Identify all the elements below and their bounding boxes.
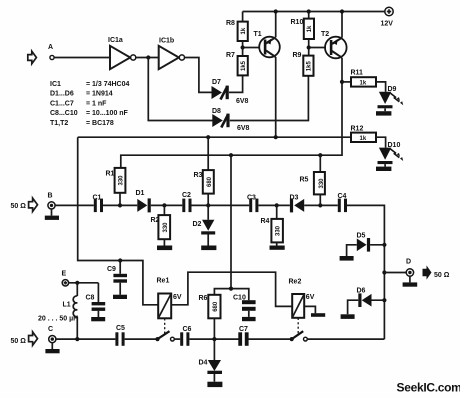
wire A to IC1a: [54, 57, 110, 59]
svg-text:C8: C8: [86, 294, 95, 301]
dashed link Re1: [164, 318, 166, 335]
svg-text:= 10...100 nF: = 10...100 nF: [86, 110, 129, 117]
svg-text:D1: D1: [136, 190, 145, 197]
svg-text:T2: T2: [321, 31, 329, 38]
wire R10 stems: [309, 12, 326, 56]
capacitor C8: [86, 283, 106, 317]
svg-text:R3: R3: [194, 172, 203, 179]
wire C3 to D3: [258, 204, 290, 206]
ground under D10: [376, 167, 391, 171]
node R2 row: [162, 203, 166, 207]
svg-text:Re1: Re1: [157, 277, 170, 284]
svg-text:C2: C2: [182, 192, 191, 199]
R6 value: [213, 301, 219, 312]
capacitor C7: [238, 326, 248, 346]
node junction IC1a-out: [146, 55, 150, 59]
resistor R6 680: [199, 295, 221, 339]
ground under R4: [270, 246, 285, 250]
dashed link Re2: [297, 318, 299, 336]
relay contact switch 2: [290, 331, 308, 341]
node D6 column: [382, 298, 386, 302]
R3 value: [207, 176, 213, 187]
transistor Q2 T2 BC178: [321, 31, 347, 58]
svg-text:R1: R1: [106, 171, 115, 178]
node rail T1: [274, 9, 278, 13]
diode D8 zener 6V8: [212, 108, 250, 132]
resistor R12 1k: [351, 126, 377, 142]
node E label: [62, 270, 67, 277]
relay Re1 coil: [157, 277, 182, 318]
svg-text:1k: 1k: [360, 136, 367, 142]
wire R1 bottom: [119, 193, 121, 206]
svg-text:A: A: [48, 44, 53, 51]
wire T1 collector down to bus: [275, 57, 277, 137]
wire switch1 to C6: [174, 338, 180, 340]
node L1 bottom: [75, 337, 79, 341]
resistor R9 1k5: [293, 52, 314, 76]
capacitor C1: [93, 195, 104, 213]
svg-text:D4: D4: [199, 360, 208, 367]
op-amp U1 IC1a: [108, 37, 136, 69]
svg-text:C6: C6: [183, 326, 192, 333]
svg-text:E: E: [62, 270, 67, 277]
diode D3: [290, 195, 305, 213]
diode D6: [348, 288, 385, 315]
wire R12 to D10: [376, 137, 386, 147]
svg-text:IC1a: IC1a: [108, 37, 123, 44]
ground under D5: [340, 256, 354, 261]
wire junction down to D8: [148, 58, 212, 121]
wire D7 cathode to R7: [229, 75, 243, 92]
input arrow C: [29, 332, 38, 345]
svg-text:1k: 1k: [360, 81, 367, 87]
R5 value: [319, 178, 325, 189]
svg-text:1k: 1k: [241, 27, 247, 34]
svg-text:6V8: 6V8: [236, 98, 249, 105]
svg-text:= 1/3 74HC04: = 1/3 74HC04: [86, 81, 129, 88]
node rail R10: [307, 9, 311, 13]
svg-text:R6: R6: [199, 295, 208, 302]
svg-text:50 Ω: 50 Ω: [434, 272, 450, 279]
svg-text:C: C: [48, 326, 53, 333]
ground under D4: [207, 382, 222, 387]
svg-text:C1...C7: C1...C7: [50, 100, 74, 107]
capacitor C3: [247, 195, 258, 212]
svg-text:D7: D7: [212, 79, 221, 86]
resistor R8 1k: [226, 20, 248, 41]
capacitor C6: [180, 326, 191, 346]
terminal E: [62, 280, 68, 286]
op-amp U1 IC1b: [159, 38, 185, 70]
resistor R7 1k5: [226, 52, 248, 75]
svg-text:R10: R10: [291, 19, 304, 26]
node R4 row: [275, 203, 279, 207]
ground under D9: [376, 111, 391, 115]
node D label: [406, 259, 411, 266]
svg-text:R11: R11: [351, 70, 364, 77]
watermark: [397, 381, 460, 395]
svg-text:50 Ω: 50 Ω: [11, 338, 27, 345]
node E junction: [75, 281, 79, 285]
svg-text:1k5: 1k5: [307, 61, 313, 72]
wire 12V rail: [243, 11, 385, 13]
svg-text:50 Ω: 50 Ω: [11, 203, 27, 210]
L1 value label: [38, 315, 78, 322]
wire R6 C10 feed: [214, 155, 248, 300]
svg-text:D8: D8: [212, 108, 221, 115]
wire C6 to C7: [189, 338, 238, 340]
node R7-R8 junction: [241, 45, 245, 49]
svg-text:C5: C5: [116, 325, 125, 332]
svg-text:L1: L1: [63, 302, 71, 309]
node D5 column: [382, 243, 386, 247]
diode D1: [136, 190, 151, 212]
wire IC1a out to IC1b: [136, 57, 159, 59]
svg-text:R5: R5: [300, 177, 309, 184]
terminal B: [48, 202, 55, 209]
node A label: [48, 44, 53, 51]
capacitor C5: [115, 325, 125, 346]
svg-text:T1: T1: [254, 31, 262, 38]
node bus138 R3: [206, 135, 210, 139]
svg-text:6V8: 6V8: [237, 125, 250, 132]
node R1 row: [118, 203, 122, 207]
relay contact switch 1: [155, 331, 174, 341]
50 ohm label C: [11, 338, 27, 345]
svg-text:D5: D5: [357, 233, 366, 240]
wire E to C8: [69, 282, 99, 284]
node bus155 R6C10: [229, 153, 233, 157]
power 12V terminal: [381, 7, 394, 27]
svg-text:SeekIC.com: SeekIC.com: [397, 381, 460, 395]
svg-text:IC1b: IC1b: [159, 38, 174, 45]
LED D10: [378, 142, 404, 167]
wire T2 emitter to rail: [341, 12, 343, 38]
svg-text:IC1: IC1: [50, 81, 61, 88]
svg-text:6V: 6V: [306, 294, 315, 301]
wire to terminal D: [384, 272, 406, 274]
svg-text:1k5: 1k5: [241, 60, 247, 71]
50 ohm label D: [434, 272, 450, 279]
ground under Re2: [311, 313, 325, 317]
wire C to C5: [56, 338, 116, 340]
resistor R10 1k: [291, 19, 315, 39]
wire switch2 to column: [307, 338, 384, 340]
node R3 D2 row: [206, 203, 210, 207]
R2 value: [163, 222, 169, 233]
wire Re2 right to ground: [304, 306, 315, 313]
capacitor C10: [233, 294, 256, 317]
ground under C: [45, 343, 59, 354]
resistor R5 330: [300, 155, 325, 205]
R4 value: [275, 225, 281, 236]
node R10-R9 junction: [307, 45, 311, 49]
relay Re2 coil: [289, 278, 315, 318]
svg-text:R9: R9: [293, 52, 302, 59]
svg-text:20 . . . 50 µH: 20 . . . 50 µH: [38, 315, 78, 322]
ground under C8: [91, 317, 105, 321]
ground under D6: [341, 314, 355, 319]
node T2 line R11 tap: [340, 80, 344, 84]
wire R11 to D9: [376, 82, 386, 92]
ground under B: [45, 209, 59, 220]
svg-text:330: 330: [163, 222, 169, 233]
wire left vertical bus down: [78, 137, 159, 305]
wire D3 to C4: [304, 204, 338, 206]
wire B to C1: [55, 204, 94, 206]
node B label: [48, 193, 53, 200]
svg-text:C7: C7: [239, 326, 248, 333]
wire C5 to switch1: [125, 338, 158, 340]
output arrow D: [423, 265, 432, 279]
wire D1 to C2: [151, 204, 183, 206]
capacitor C4: [338, 193, 348, 212]
svg-text:C8...C10: C8...C10: [50, 110, 78, 117]
ground under D2: [201, 246, 216, 251]
wire D8 cathode to R9 bottom: [230, 76, 309, 121]
resistor R1 330: [106, 168, 126, 193]
ground under R2: [157, 246, 172, 251]
svg-text:12V: 12V: [381, 21, 394, 28]
capacitor C2: [182, 192, 192, 212]
node rail T2: [340, 9, 344, 13]
svg-text:330: 330: [275, 225, 281, 236]
terminal D: [406, 269, 413, 276]
ground under D: [403, 276, 418, 286]
node bus155 R5: [318, 153, 322, 157]
wire IC1b out down to D7: [185, 58, 212, 93]
terminal C: [49, 336, 56, 343]
wire Re1 right to bus272: [171, 272, 292, 306]
svg-text:330: 330: [319, 178, 325, 189]
terminal A: [50, 55, 54, 59]
wire T1 emitter to rail: [275, 12, 277, 38]
node C9 tap: [118, 258, 122, 262]
wire C4 to output column: [347, 205, 384, 339]
wire C1 to D1: [103, 204, 137, 206]
diode D2: [193, 205, 216, 245]
input arrow B: [29, 198, 38, 211]
capacitor C9: [107, 261, 127, 295]
diode D7 zener 6V8: [212, 79, 249, 105]
svg-text:680: 680: [213, 301, 219, 312]
50 ohm label B: [11, 203, 27, 210]
svg-text:6V: 6V: [173, 294, 182, 301]
wire bus 138: [78, 136, 351, 138]
node R6 D4 row: [212, 337, 216, 341]
wire C7 to switch2: [248, 338, 291, 340]
resistor R3 680: [194, 137, 214, 205]
svg-text:R8: R8: [226, 20, 235, 27]
transistor Q1 T1 BC178: [254, 31, 280, 57]
LED D9: [378, 86, 404, 111]
node R6 C10 junction: [229, 287, 233, 291]
svg-text:B: B: [48, 193, 53, 200]
svg-text:680: 680: [207, 176, 213, 187]
wire R8 top to rail: [242, 12, 244, 22]
svg-text:330: 330: [118, 175, 124, 186]
ground under C10: [242, 317, 256, 321]
resistor R11 1k: [342, 70, 376, 87]
diode D5: [347, 233, 385, 257]
node bus138 T1: [274, 135, 278, 139]
svg-text:1k: 1k: [307, 25, 313, 32]
legend parts list: [50, 81, 129, 127]
svg-text:D1...D6: D1...D6: [50, 91, 74, 98]
node R5 row: [318, 203, 322, 207]
diode D4: [199, 339, 223, 382]
node D output column: [382, 270, 386, 274]
resistor R4 330: [261, 205, 283, 245]
svg-text:T1,T2: T1,T2: [50, 120, 68, 127]
svg-text:= 1N914: = 1N914: [86, 91, 113, 98]
resistor R2 330: [151, 205, 171, 245]
ground under C9: [113, 295, 127, 299]
wire R8-R7 junction to T1 base: [243, 41, 260, 56]
wire T2 collector down to bus155 corner: [121, 58, 342, 168]
svg-text:C9: C9: [107, 266, 116, 273]
svg-text:R4: R4: [261, 218, 270, 225]
inductor L1: [63, 283, 78, 339]
wire C2 to C3: [192, 204, 250, 206]
node C label: [48, 326, 53, 333]
svg-text:= BC178: = BC178: [86, 120, 114, 127]
svg-text:D: D: [406, 259, 411, 266]
svg-text:Re2: Re2: [289, 278, 302, 285]
input arrow A: [28, 51, 37, 64]
svg-text:D2: D2: [193, 221, 202, 228]
svg-text:= 1 nF: = 1 nF: [86, 100, 107, 107]
svg-text:R7: R7: [226, 52, 235, 59]
